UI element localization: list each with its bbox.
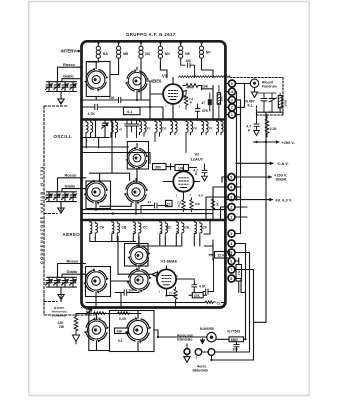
INTERV arrow <box>77 50 82 52</box>
cap 4.7K with ground <box>193 164 207 181</box>
wire NF down <box>202 62 214 78</box>
wire Giallo bottom <box>62 274 86 277</box>
resistor 2.2K vertical <box>184 90 193 109</box>
box 10K <box>175 165 189 171</box>
label OSCILL <box>54 134 73 139</box>
label 47 small <box>119 128 123 132</box>
ground arrow bottom trimmers <box>58 292 64 300</box>
svg-text:3: 3 <box>231 98 233 102</box>
wire V3 left to 107-node <box>149 94 151 120</box>
tube V2 <box>163 167 199 198</box>
ant coil can S9 <box>84 314 109 351</box>
svg-text:C1: C1 <box>217 302 221 306</box>
label Rosso (bottom) <box>67 258 80 263</box>
wire Rosso top <box>58 67 82 82</box>
svg-text:1: 1 <box>230 215 232 219</box>
label Rosso (mid) <box>65 173 78 178</box>
long routing wire <box>82 213 213 215</box>
osc coil pair 1 below bus <box>86 120 93 138</box>
svg-text:bilanciato: bilanciato <box>193 369 208 373</box>
tuning cap rotor S1 <box>84 62 108 92</box>
wire 10K row <box>202 86 214 120</box>
svg-text:V1-6BA6: V1-6BA6 <box>161 259 178 264</box>
svg-text:INTERV: INTERV <box>61 48 77 53</box>
svg-text:ND: ND <box>165 52 171 56</box>
rotated label CONDENSATORE VARIAB N 2751 <box>39 165 44 264</box>
svg-text:0.1: 0.1 <box>127 110 132 114</box>
INTERV label <box>61 48 77 53</box>
box 1M vertical <box>236 258 242 293</box>
cap below bus <box>134 120 138 138</box>
label V3 6BE6 <box>151 74 168 84</box>
coil NA <box>96 41 108 62</box>
arrow below connector <box>252 88 258 98</box>
svg-text:NA: NA <box>103 52 109 56</box>
label Giallo (mid) <box>65 183 76 188</box>
OSCILL section bus <box>82 118 226 121</box>
aereo wire mesh <box>90 220 205 246</box>
svg-text:CE: CE <box>185 226 190 230</box>
balanced aerial terminal B <box>195 349 202 360</box>
svg-text:bilanciato: bilanciato <box>177 338 192 342</box>
dashed stub top <box>44 102 68 107</box>
svg-text:2: 2 <box>230 205 232 209</box>
antenna coil CD <box>159 219 172 238</box>
svg-text:Rosso: Rosso <box>67 258 80 263</box>
title GRUPPO A.F. N 2617 <box>126 32 176 37</box>
antenna coil CE <box>175 219 190 238</box>
trimmer group bottom <box>46 277 77 292</box>
wire ND down <box>160 62 167 78</box>
wire Rosso bottom <box>58 264 86 278</box>
svg-text:0.33: 0.33 <box>119 317 126 321</box>
resistor 5K rotated label <box>211 197 219 211</box>
tuning cap rotor S4 <box>86 181 111 209</box>
box 0.1 <box>124 107 141 114</box>
svg-text:3: 3 <box>230 195 232 199</box>
wire Giallo mid <box>62 189 86 192</box>
label Aereo non bilanciato <box>177 334 193 342</box>
box 500 <box>153 164 167 170</box>
tube V3 6BE6 <box>150 78 187 120</box>
resistor + C1 label (bottom of section) <box>86 301 225 306</box>
svg-text:47K: 47K <box>195 202 201 206</box>
dashed stub bottom <box>44 296 61 302</box>
svg-text:100: 100 <box>109 96 115 100</box>
balanced wires <box>202 352 254 360</box>
svg-text:8: 8 <box>230 277 232 281</box>
svg-text:N.9/9055: N.9/9055 <box>200 327 214 331</box>
label AEREO <box>63 232 81 237</box>
svg-text:15K: 15K <box>220 95 224 101</box>
svg-text:47K: 47K <box>186 86 193 90</box>
coil NF <box>199 41 211 62</box>
svg-text:2: 2 <box>196 356 198 360</box>
svg-text:4.7K: 4.7K <box>88 112 96 116</box>
trimmer cap below bus <box>102 120 108 138</box>
svg-text:FE: FE <box>193 127 197 131</box>
svg-text:100: 100 <box>186 59 192 63</box>
osc row labels <box>147 127 213 131</box>
dashed box (pickup unit) <box>257 78 284 116</box>
box around rf can S6 <box>125 244 149 267</box>
svg-text:2.2K: 2.2K <box>270 127 278 131</box>
svg-text:5: 5 <box>230 251 232 255</box>
antenna coil CH <box>89 219 105 238</box>
svg-text:T2: T2 <box>167 202 171 206</box>
label Ricevit Fonorum <box>262 80 277 88</box>
svg-text:6: 6 <box>230 259 232 263</box>
antenna connector N.9/9055 <box>207 333 216 342</box>
chassis arrow left <box>81 307 83 309</box>
terminal strip 2 <box>228 174 235 221</box>
svg-text:47: 47 <box>119 128 123 132</box>
wire with series cap to V3 grid <box>82 107 163 120</box>
terminal wires right <box>226 84 251 234</box>
svg-text:47K: 47K <box>194 294 201 298</box>
ground arrow mid trimmers <box>58 206 64 214</box>
resistor 47K (mid) <box>190 198 201 212</box>
svg-text:0.1: 0.1 <box>118 339 123 343</box>
wire mesh oscill left <box>82 138 150 164</box>
svg-text:4.7K: 4.7K <box>199 285 206 289</box>
antenna coil CB <box>111 219 127 238</box>
svg-text:CF: CF <box>203 226 207 230</box>
box T2 <box>166 200 173 206</box>
svg-text:5: 5 <box>231 82 233 86</box>
svg-text:6BE6: 6BE6 <box>151 79 162 84</box>
svg-text:Rosso: Rosso <box>63 62 76 67</box>
svg-text:CD: CD <box>166 226 171 230</box>
capacitor 4.7K to ground <box>247 119 260 136</box>
svg-text:1 M: 1 M <box>237 270 241 276</box>
svg-text:AEREO: AEREO <box>63 232 81 237</box>
cap 100 (output) <box>233 342 240 352</box>
svg-text:FF: FF <box>209 127 213 131</box>
label N 467 K.L. <box>246 99 255 107</box>
wire cap100 to bus <box>96 237 139 308</box>
label V1-6BA6 <box>161 259 178 264</box>
cap 100 (aereo) <box>115 288 139 295</box>
resistor 22K 2W vertical <box>58 314 78 333</box>
coil NC <box>139 41 151 62</box>
svg-text:7: 7 <box>230 268 232 272</box>
wire below bus <box>95 120 97 138</box>
svg-text:10K: 10K <box>202 85 209 89</box>
svg-text:OSCILL: OSCILL <box>54 134 73 139</box>
terminal strip 2 wires <box>206 177 247 220</box>
ground arrow top trimmers <box>58 96 64 104</box>
capacitor 100 (top mid) <box>109 96 121 103</box>
box around osc can S3 <box>127 142 148 170</box>
label N.9/9055 <box>200 327 214 331</box>
label Rosso (top section) <box>63 62 76 67</box>
svg-text:GRUPPO A.F. N 2617: GRUPPO A.F. N 2617 <box>126 32 176 37</box>
svg-text:33K: 33K <box>117 329 124 333</box>
terminal2 left stubs <box>221 177 229 220</box>
C.A.V. output <box>237 161 289 166</box>
resistor 0.1 vertical at V1 <box>168 287 177 307</box>
svg-text:NC: NC <box>145 52 151 56</box>
balanced aerial terminal C <box>208 349 215 356</box>
+250V output <box>254 140 295 145</box>
wire bottom row <box>76 313 141 315</box>
label Giallo (bottom) <box>67 269 78 274</box>
label V2 12AU7 <box>191 152 204 162</box>
svg-text:47K: 47K <box>202 109 209 113</box>
wire S2 bottom <box>96 81 150 100</box>
bottom wires <box>89 314 207 351</box>
osc coil can S3 <box>125 144 148 183</box>
svg-text:C.A.V.: C.A.V. <box>278 161 289 166</box>
antenna coil CC <box>132 219 148 238</box>
svg-text:CC: CC <box>143 226 148 230</box>
svg-text:500: 500 <box>155 165 161 169</box>
arrow aereo non bilanciato <box>201 339 205 344</box>
label N.8475 Vernierino d'antenna <box>52 306 67 318</box>
box around tuning section C1 <box>86 62 110 97</box>
AGC arrow into V1 <box>118 236 158 276</box>
svg-text:100: 100 <box>129 288 135 292</box>
tube V1 <box>153 266 182 296</box>
capacitor 47K bypass <box>195 104 208 120</box>
terminal strip 3 <box>228 230 235 282</box>
svg-text:CONDENSATORE VARIAB. N 2751: CONDENSATORE VARIAB. N 2751 <box>39 165 44 264</box>
resistor 6800 box <box>216 322 266 342</box>
resistor 22K (bottom row) <box>94 312 106 321</box>
shield frame (thick rounded rect of RF group) <box>82 41 226 307</box>
svg-text:1: 1 <box>231 113 233 117</box>
svg-text:N 467: N 467 <box>246 99 255 103</box>
wire Giallo top <box>62 79 82 82</box>
AEREO section bus <box>82 219 226 222</box>
wire mesh oscill section extras <box>86 120 131 207</box>
svg-text:4: 4 <box>231 90 233 94</box>
label N.77543 <box>228 330 241 334</box>
svg-text:Rosso: Rosso <box>65 173 78 178</box>
capacitor pair in pickup box <box>258 93 277 112</box>
cap pair below bus <box>125 120 134 138</box>
box 22K (right) <box>209 252 232 259</box>
svg-text:4: 4 <box>230 185 232 189</box>
capacitor 100 (NE) <box>181 59 195 78</box>
label 10K <box>202 85 209 89</box>
svg-text:5000: 5000 <box>284 99 288 106</box>
cap 47 on wire <box>141 201 168 214</box>
label Giallo (top section) <box>63 74 74 79</box>
box 47K (V1) <box>189 293 207 298</box>
svg-text:5: 5 <box>230 175 232 179</box>
svg-text:CH: CH <box>100 226 105 230</box>
osc coil can S5 <box>124 179 149 214</box>
svg-text:Fonorum: Fonorum <box>262 85 277 89</box>
feed line down right <box>265 142 267 322</box>
svg-text:N.77543: N.77543 <box>228 330 241 334</box>
svg-text:NB: NB <box>123 52 129 56</box>
coupling cap at V1 out <box>194 258 213 294</box>
ground arrow 22K <box>72 333 79 344</box>
rf coil can S8 <box>126 267 151 292</box>
label 6.8 <box>199 193 204 197</box>
label Aereo bilanciato <box>193 364 208 372</box>
resistor 0.33 (bottom row) <box>118 312 130 321</box>
antenna trimmer <box>86 308 92 315</box>
svg-text:V3: V3 <box>162 74 168 79</box>
rf coil can S6 <box>127 244 150 270</box>
svg-text:3: 3 <box>230 232 232 236</box>
trimmer group top (4 variable caps) <box>46 82 77 96</box>
box around antenna tube <box>110 311 155 352</box>
wire between boxes <box>166 164 197 171</box>
dashed shield continuation <box>230 77 283 79</box>
Fil 6.3V output <box>225 197 292 202</box>
trimmer group mid <box>46 192 77 206</box>
coil ND <box>158 41 170 62</box>
resistor 2.2K (mid) <box>177 198 185 212</box>
wire pickup bottom <box>257 112 284 142</box>
svg-text:NE: NE <box>185 52 191 56</box>
capacitor 47 (black) <box>202 93 212 111</box>
balanced aerial terminal A <box>184 344 190 362</box>
resistor 5000 (hatched vertical) <box>278 93 287 112</box>
svg-text:+250 V.: +250 V. <box>282 140 295 145</box>
svg-text:K.L.: K.L. <box>248 104 254 108</box>
svg-text:47: 47 <box>202 101 206 105</box>
resistor 47K (V3 plate) <box>183 84 202 91</box>
box 33K <box>115 328 129 334</box>
svg-text:6.8: 6.8 <box>199 193 204 197</box>
tube pin numbers <box>159 106 192 296</box>
capacitor in 107-wire <box>95 104 98 109</box>
label 0.1 <box>118 339 123 343</box>
svg-text:47: 47 <box>148 201 152 205</box>
ant coil can S10 <box>125 311 152 352</box>
cap 4.7K at V1 <box>182 279 206 292</box>
svg-text:4: 4 <box>230 242 232 246</box>
wire NB to S2 <box>110 62 119 75</box>
svg-text:12AU7: 12AU7 <box>191 157 204 162</box>
hatched resistor 15K vertical <box>217 86 223 120</box>
svg-text:Giallo: Giallo <box>63 74 74 79</box>
svg-text:Giallo: Giallo <box>67 269 78 274</box>
svg-text:100: 100 <box>233 348 239 352</box>
dashed stub mid <box>44 209 61 214</box>
osc coil pair 2 below bus <box>111 120 118 138</box>
tuning cap rotor S2 <box>125 67 149 93</box>
antenna coil CF <box>193 219 207 238</box>
wire node at y100 <box>82 62 150 107</box>
terminal strip 1 (5,4,3,2,1) <box>229 80 236 118</box>
coil NE <box>179 41 191 62</box>
label 4.7K <box>88 112 96 116</box>
osc transformer row below bus <box>140 120 224 153</box>
svg-text:Fil. 6.3 V.: Fil. 6.3 V. <box>276 197 293 202</box>
svg-text:6800: 6800 <box>231 338 238 342</box>
+150V Stabil output <box>237 172 288 181</box>
tuning cap rotor S7 <box>86 267 111 297</box>
svg-text:CB: CB <box>122 226 127 230</box>
svg-text:22 K: 22 K <box>218 254 226 258</box>
heater zigzag shield line <box>179 76 231 78</box>
resistor 2.2K vertical <box>265 115 277 137</box>
svg-text:2: 2 <box>231 106 233 110</box>
wire NA to box <box>88 61 98 63</box>
svg-text:Stabil.: Stabil. <box>276 177 288 182</box>
svg-text:Giallo: Giallo <box>65 183 76 188</box>
coil NB <box>117 41 129 62</box>
wire Rosso mid <box>58 178 87 192</box>
long routing wire <box>82 209 225 211</box>
terminal strip 3 wires <box>235 234 254 361</box>
dashed condenser box <box>44 106 95 315</box>
phono pickup connector <box>250 79 258 87</box>
